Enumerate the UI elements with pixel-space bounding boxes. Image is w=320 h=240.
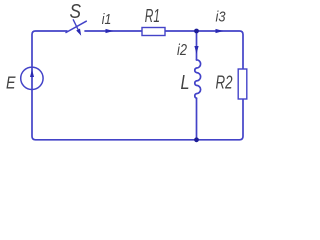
switch S actuate arrow <box>73 20 79 33</box>
wire outer loop <box>32 31 243 140</box>
resistor R2 <box>238 69 247 99</box>
current arrow i3 <box>216 29 224 33</box>
resistor R1 <box>142 28 165 36</box>
switch arrow head <box>76 29 81 36</box>
junction node bottom <box>194 137 199 142</box>
svg-text:i2: i2 <box>177 42 187 59</box>
svg-text:E: E <box>6 72 16 92</box>
switch S blade <box>66 21 86 32</box>
junction node top <box>194 29 199 34</box>
svg-text:S: S <box>70 1 82 23</box>
svg-text:L: L <box>181 72 190 94</box>
current arrow i1 <box>106 29 114 33</box>
svg-text:i1: i1 <box>102 11 112 28</box>
svg-text:i3: i3 <box>216 9 227 26</box>
voltage source E arrow head <box>30 69 34 77</box>
voltage source E circle <box>21 67 43 89</box>
svg-text:R1: R1 <box>145 6 160 26</box>
wire middle branch <box>196 31 198 60</box>
svg-text:R2: R2 <box>216 72 233 92</box>
current arrow i2 <box>194 46 198 54</box>
wire below inductor <box>196 98 198 140</box>
inductor L <box>195 60 201 98</box>
